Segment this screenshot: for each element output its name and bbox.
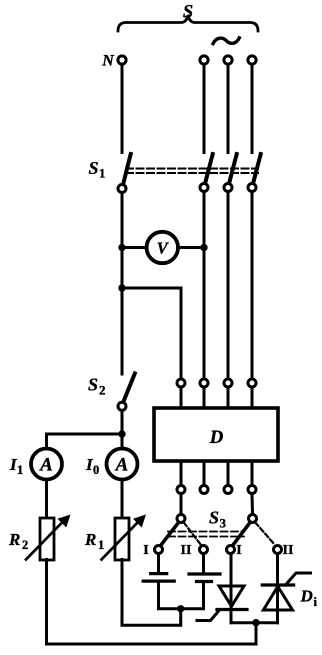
bottom rail wire: [47, 643, 257, 646]
switch S1 pole 1 hinge: [118, 185, 126, 193]
thyristor Di top lead: [276, 554, 279, 623]
svg-text:2: 2: [99, 383, 106, 398]
wire S1 pole2 down to D: [203, 192, 206, 378]
D output terminal 3: [224, 486, 232, 494]
D input terminal 3: [224, 379, 232, 387]
svg-text:S: S: [183, 3, 193, 23]
label S2: [88, 375, 106, 398]
svg-text:A: A: [115, 455, 129, 476]
svg-text:D: D: [209, 427, 224, 448]
label I1: [9, 455, 23, 477]
voltmeter V: [147, 232, 178, 263]
wire D output 4 to selector: [251, 494, 255, 514]
node on N line below V: [118, 284, 125, 291]
selector S3 right blade to I: [233, 523, 250, 546]
thyristor T1 lead: [230, 554, 233, 610]
wire to ammeter I1: [47, 434, 123, 449]
thyristor Di triangle: [263, 587, 292, 611]
svg-text:S: S: [209, 508, 219, 528]
wire R2 down: [45, 560, 48, 645]
selector S3 right common: [249, 515, 257, 523]
selector S3 left blade to I: [161, 523, 179, 546]
label R1: [84, 530, 104, 552]
svg-text:1: 1: [99, 166, 106, 181]
thyristor T1 triangle: [219, 586, 244, 606]
switch S2 blade: [124, 374, 135, 402]
label R2: [8, 530, 28, 552]
thyristor Di anode bar: [262, 583, 293, 586]
ammeter I1: [31, 449, 62, 480]
switch S1 pole 3 blade: [229, 154, 237, 183]
battery II long plate: [189, 572, 220, 575]
selector S3 left dashed to II: [184, 523, 201, 546]
D output terminal 4: [248, 486, 256, 494]
wire phase2 terminal to S1: [227, 66, 230, 153]
block D: [154, 408, 278, 461]
label S3: [209, 508, 227, 531]
wire S1 pole1 down: [121, 193, 124, 374]
D input terminal 1: [177, 379, 185, 387]
battery II short plate: [197, 580, 212, 583]
switch S2 hinge: [118, 402, 126, 410]
label Di: [300, 587, 318, 610]
svg-text:N: N: [101, 53, 115, 70]
wire N terminal to S1: [121, 66, 124, 153]
terminal phase 1: [200, 56, 208, 64]
selector S3 left common: [177, 515, 185, 523]
terminal phase 3: [248, 56, 256, 64]
svg-text:1: 1: [17, 463, 23, 477]
S3 left contact II: [200, 546, 208, 554]
thyristor T1 cathode bar: [217, 608, 247, 611]
wire I0 to R1: [121, 480, 124, 518]
wires D input terminals to block: [180, 388, 183, 408]
switch S1 pole 4 hinge: [248, 184, 256, 192]
node at N line / V branch: [118, 244, 125, 251]
thyristor Di gate: [286, 573, 311, 585]
wire S1 pole3 down to D: [227, 192, 230, 378]
battery I short plate: [151, 572, 167, 575]
svg-text:S: S: [89, 158, 99, 178]
selector S3 right dashed to II: [255, 523, 275, 546]
ammeter I0: [107, 449, 138, 480]
wire from N line to D input 1: [122, 288, 181, 378]
node on battery bottom wire: [177, 605, 184, 612]
D output terminal 1: [177, 486, 185, 494]
wire S1 pole4 down to D: [251, 192, 254, 378]
svg-text:I: I: [143, 543, 148, 558]
label S1: [89, 158, 106, 181]
S3 gang link dashed: [168, 531, 244, 533]
wire voltmeter branch: [122, 246, 204, 249]
battery I bottom lead: [159, 583, 204, 609]
svg-text:II: II: [181, 543, 192, 558]
wire thyristor cathodes: [231, 621, 278, 624]
wire I1 to R2: [45, 480, 48, 518]
resistor R1 (variable): [115, 518, 129, 560]
svg-text:R: R: [8, 530, 20, 549]
wires D block to output terminals: [180, 461, 183, 485]
brace for net S: [118, 15, 258, 31]
resistor R2 (variable): [40, 518, 54, 560]
AC tilde symbol: [213, 38, 239, 44]
S3 right contact I: [227, 546, 235, 554]
wire phase3 terminal to S1: [251, 66, 254, 153]
D input terminal 2: [200, 379, 208, 387]
svg-text:2: 2: [22, 538, 28, 552]
S3 right contact II: [274, 546, 282, 554]
svg-text:II: II: [283, 543, 294, 558]
thyristor T1 gate: [197, 611, 219, 621]
switch S1 pole 2 blade: [205, 154, 213, 183]
wire S2 to ammeters: [121, 411, 124, 449]
node on thyristor wire: [252, 619, 259, 626]
battery II top lead: [202, 554, 205, 573]
svg-text:i: i: [314, 595, 318, 609]
wire phase1 terminal to S1: [203, 66, 206, 153]
svg-text:1: 1: [98, 538, 104, 552]
svg-text:D: D: [300, 587, 313, 606]
terminal N: [118, 56, 126, 64]
label I0: [85, 455, 99, 477]
svg-text:3: 3: [220, 516, 227, 531]
switch S1 pole 4 blade: [253, 154, 261, 183]
D input terminal 4: [248, 379, 256, 387]
wire R1 to battery bottom: [122, 560, 181, 626]
node at phase1 line / V branch: [200, 244, 207, 251]
terminal phase 2: [224, 56, 232, 64]
wire riser to bottom rail: [255, 623, 258, 644]
svg-text:S: S: [88, 375, 98, 395]
svg-text:R: R: [84, 530, 96, 549]
battery I lead: [157, 554, 160, 572]
svg-text:I: I: [236, 543, 241, 558]
S3 left contact I: [155, 546, 163, 554]
wire D output 1 to selector: [180, 494, 183, 514]
switch S1 pole 3 hinge: [224, 184, 232, 192]
switch S1 pole 1 blade: [123, 154, 131, 184]
svg-text:0: 0: [93, 463, 99, 477]
battery I long plate: [143, 579, 174, 582]
node at S2/I1 branch: [118, 430, 125, 437]
svg-text:A: A: [39, 455, 53, 476]
D output terminal 2: [200, 486, 208, 494]
S1 gang link dashed: [126, 168, 258, 170]
switch S1 pole 2 hinge: [200, 184, 208, 192]
thyristor T1 bottom lead: [230, 610, 233, 623]
